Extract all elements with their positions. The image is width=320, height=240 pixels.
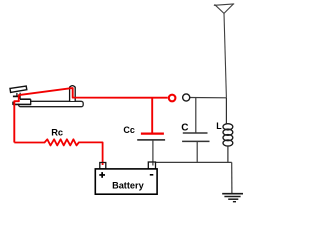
capacitor Cc bottom plate (137, 139, 165, 141)
capacitor C plates (183, 132, 208, 134)
svg-text:Battery: Battery (112, 180, 145, 190)
wire red: key lever (19, 88, 70, 95)
svg-text:Cc: Cc (123, 125, 135, 135)
telegraph key knob (10, 86, 27, 92)
wire: black top wire from terminal to junction (190, 97, 227, 99)
battery + sign (99, 174, 105, 176)
inductor L top lead (225, 98, 227, 125)
resistor Rc (red zigzag) (14, 139, 102, 164)
capacitor Cc bottom lead (152, 140, 154, 165)
antenna (214, 4, 234, 14)
telegraph key stem (16, 93, 18, 96)
ground (222, 194, 243, 202)
svg-text:C: C (181, 122, 188, 133)
battery - sign (150, 174, 154, 176)
svg-text:Rc: Rc (51, 128, 63, 138)
capacitor Cc top lead (red) (151, 98, 153, 134)
node: black terminal circle (183, 94, 190, 101)
capacitor C bottom lead (196, 141, 198, 162)
battery body (95, 169, 157, 194)
capacitor C top lead (195, 98, 197, 133)
battery positive lead tip (red) (102, 163, 104, 165)
telegraph key base (19, 101, 84, 106)
battery negative lead tip (152, 162, 154, 165)
wire red: pivot down and top wire to terminal (70, 88, 168, 98)
telegraph key pivot post (70, 86, 74, 101)
wire: drop to ground (231, 162, 233, 193)
wire: antenna mast down to junction (224, 13, 226, 97)
battery positive terminal (100, 163, 106, 169)
svg-text:L: L (216, 121, 222, 131)
inductor L coil (223, 124, 233, 146)
battery negative terminal (148, 162, 155, 169)
capacitor Cc top plate (red) (141, 132, 164, 134)
node: red terminal circle (169, 95, 176, 102)
telegraph key left contact block (14, 100, 30, 104)
wire: bottom bus (155, 161, 232, 163)
inductor L bottom lead (227, 146, 229, 162)
wire red: key stem down left side (14, 94, 18, 142)
